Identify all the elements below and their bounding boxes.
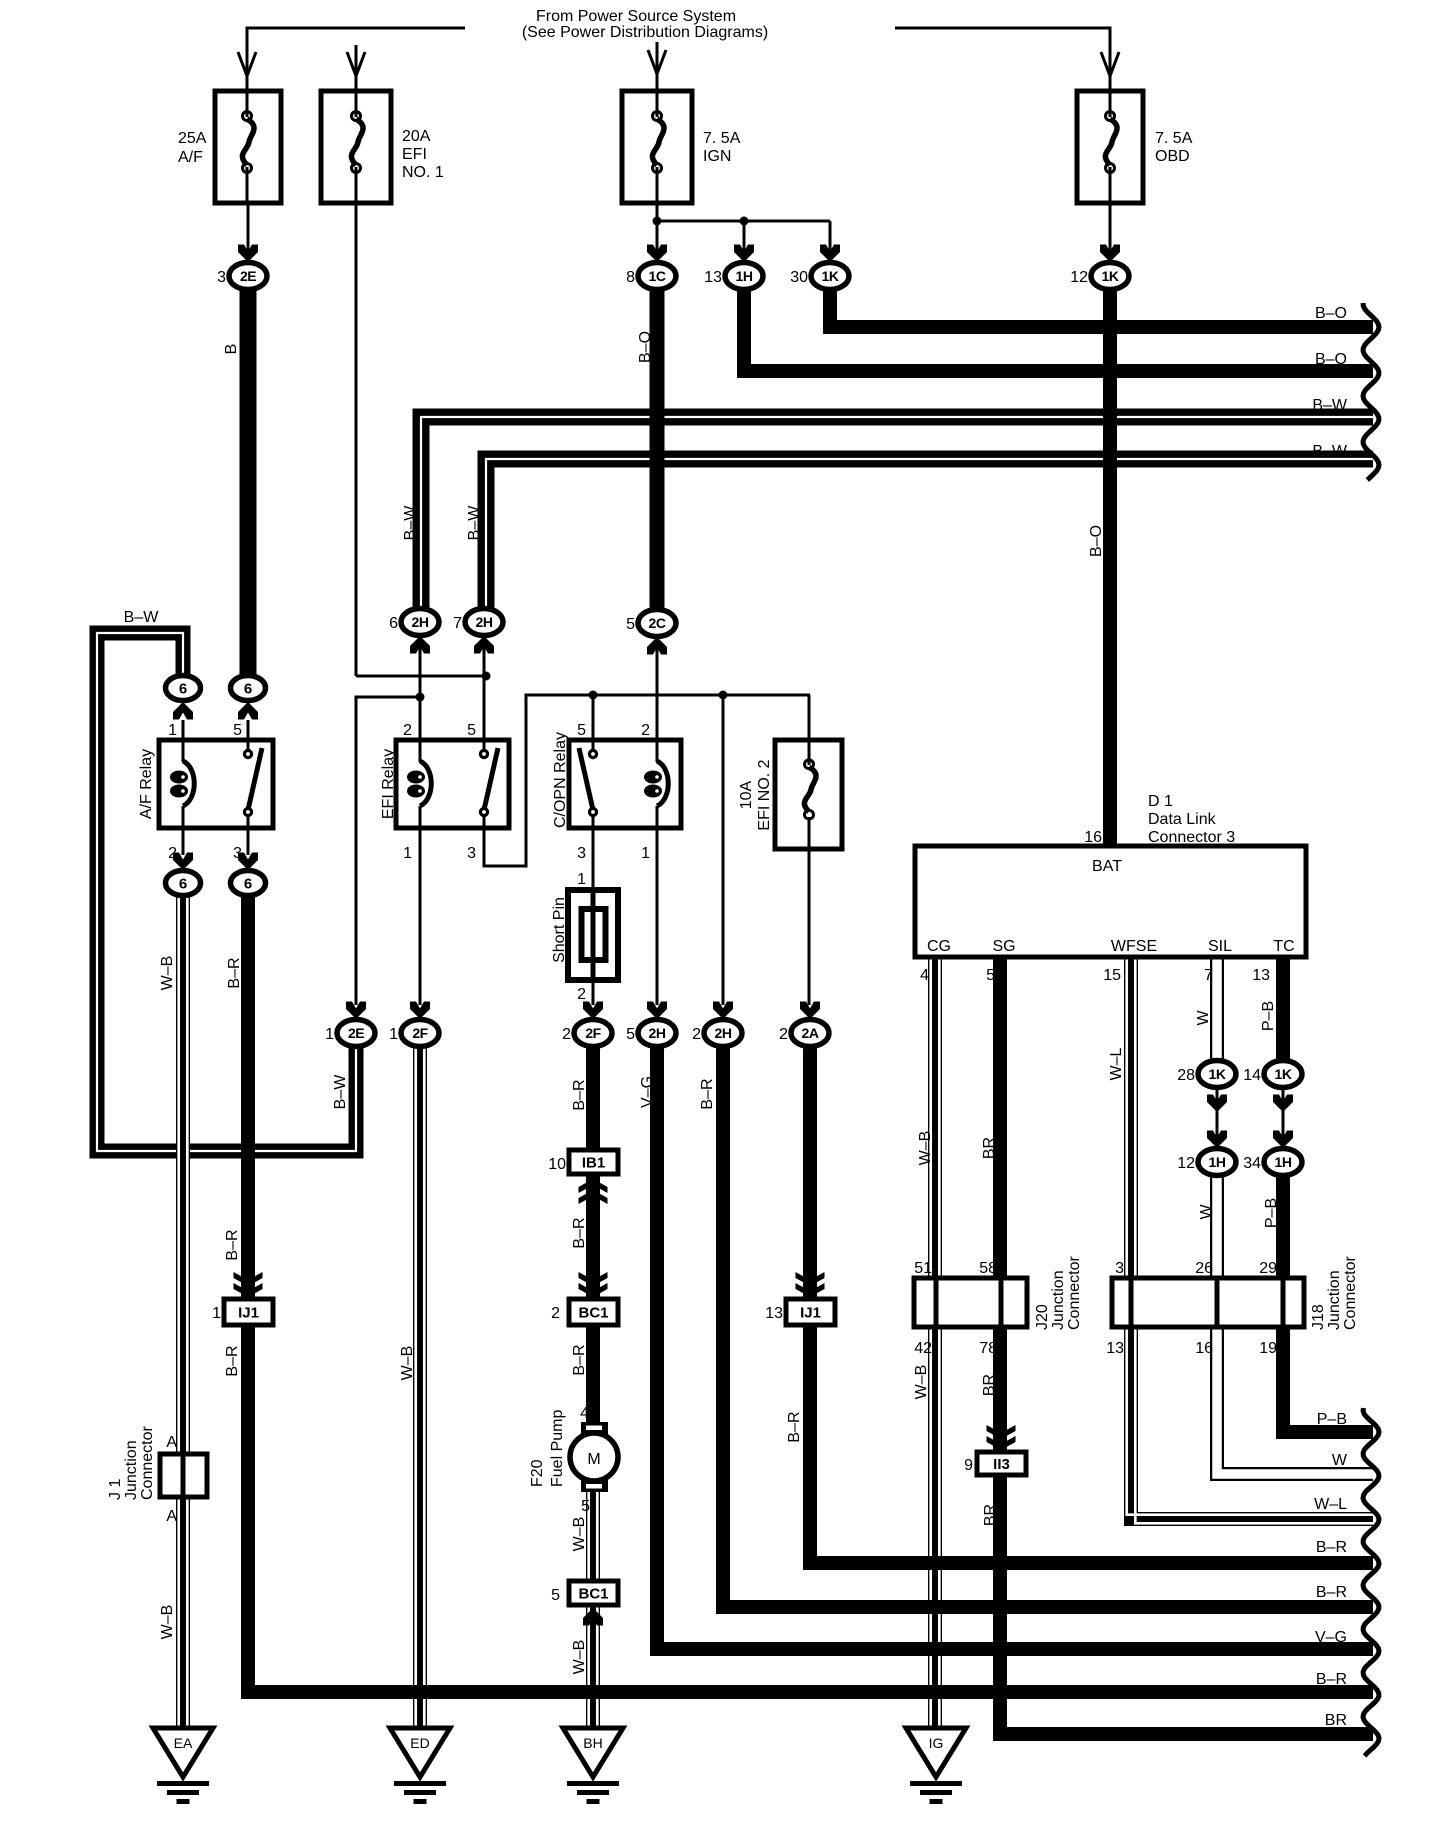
junction connector J1 <box>160 1454 207 1497</box>
svg-text:1K: 1K <box>1209 1066 1226 1082</box>
svg-text:2E: 2E <box>348 1025 364 1041</box>
svg-text:P–B: P–B <box>1317 1411 1347 1428</box>
connector 2 2F <box>574 1020 612 1047</box>
wire to connector 30 1K <box>829 221 832 261</box>
fuse element 7.5A IGN <box>652 112 664 173</box>
svg-text:Connector: Connector <box>1066 1256 1083 1330</box>
svg-text:2H: 2H <box>476 614 493 630</box>
svg-text:2A: 2A <box>802 1025 819 1041</box>
wire P-B from 34 1H via J18 to right exit <box>1283 1176 1373 1432</box>
svg-text:Data Link: Data Link <box>1148 811 1217 828</box>
svg-text:TC: TC <box>1273 938 1294 955</box>
svg-text:BR: BR <box>1325 1712 1347 1729</box>
svg-text:2E: 2E <box>240 268 256 284</box>
svg-text:B–R: B–R <box>224 1345 241 1376</box>
wire W-L from DLC3 WFSE via J18 to right exit <box>1131 957 1373 1519</box>
svg-text:1: 1 <box>212 1305 221 1322</box>
relay EFI box <box>396 740 509 828</box>
wire 20A fuse down to EFI relay pin5 branch <box>355 203 358 676</box>
svg-text:58: 58 <box>979 1260 997 1277</box>
wire stub to 20A EFI NO.1 fuse <box>355 45 358 91</box>
wire A/F relay pin3 down <box>247 812 250 855</box>
svg-text:EFI NO. 2: EFI NO. 2 <box>756 759 773 830</box>
continuation squiggle bottom right <box>1363 1408 1379 1756</box>
svg-text:(See Power Distribution Diagra: (See Power Distribution Diagrams) <box>522 24 768 41</box>
svg-text:16: 16 <box>1195 1340 1213 1357</box>
svg-text:BH: BH <box>583 1735 602 1751</box>
wire to connector 8 1C <box>656 221 659 261</box>
wire P-B from DLC3 TC to 14 1K <box>1276 957 1290 1061</box>
svg-text:2: 2 <box>168 845 177 862</box>
connector 6 A/F relay pin2 <box>166 871 201 896</box>
svg-text:B–R: B–R <box>1316 1671 1347 1688</box>
svg-text:V–G: V–G <box>1315 1629 1347 1646</box>
ground IG <box>906 1728 966 1804</box>
svg-text:B–O: B–O <box>1315 305 1347 322</box>
svg-text:EFI Relay: EFI Relay <box>380 749 397 819</box>
svg-text:3: 3 <box>217 269 226 286</box>
svg-text:B–O: B–O <box>1315 351 1347 368</box>
data link connector 3 box <box>915 846 1306 957</box>
svg-text:W–B: W–B <box>159 1605 176 1640</box>
wire branch to connector 2 2H <box>722 695 725 1005</box>
connector 28 1K <box>1198 1061 1236 1088</box>
wire 2C connector to C/OPN relay pin2 coil <box>656 640 659 762</box>
C/OPN relay coil <box>644 761 668 806</box>
svg-text:W–B: W–B <box>571 1640 588 1675</box>
wire W-B from DLC3 CG to ground IG via J20 <box>928 957 942 1728</box>
svg-text:2: 2 <box>692 1026 701 1043</box>
fuse element 25A A/F <box>242 112 254 173</box>
svg-text:16: 16 <box>1084 829 1102 846</box>
svg-text:6: 6 <box>179 681 187 698</box>
wire B-O from 8 1C to 5 2C <box>650 289 665 611</box>
connector 3 2E <box>229 263 267 290</box>
svg-text:SIL: SIL <box>1208 938 1232 955</box>
svg-text:Junction: Junction <box>1050 1270 1067 1330</box>
wire V-G from 5 2H to right exit <box>657 1045 1373 1649</box>
svg-text:BR: BR <box>981 1374 998 1396</box>
svg-text:Connector: Connector <box>139 1426 156 1500</box>
svg-text:1H: 1H <box>1209 1154 1226 1170</box>
svg-text:13: 13 <box>1106 1340 1124 1357</box>
svg-text:B–W: B–W <box>466 505 483 541</box>
svg-text:4: 4 <box>920 967 929 984</box>
connector 7 2H <box>465 609 503 636</box>
fuel pump terminal 4 <box>581 1422 608 1434</box>
svg-text:W–B: W–B <box>917 1131 934 1166</box>
connector 12 1K <box>1091 263 1129 290</box>
connector IJ1 pin13 <box>786 1299 835 1325</box>
svg-text:B–R: B–R <box>699 1078 716 1109</box>
svg-text:J 1: J 1 <box>107 1479 124 1500</box>
svg-text:7. 5A: 7. 5A <box>703 130 741 147</box>
fuse feed arrowheads <box>238 52 256 76</box>
short pin element <box>582 909 606 960</box>
svg-text:19: 19 <box>1259 1340 1277 1357</box>
svg-text:BAT: BAT <box>1092 858 1122 875</box>
svg-text:1: 1 <box>577 871 586 888</box>
svg-text:EA: EA <box>174 1735 193 1751</box>
wire W-B from BC1 to ground BH <box>586 1605 600 1728</box>
svg-text:26: 26 <box>1195 1260 1213 1277</box>
svg-text:Connector 3: Connector 3 <box>1148 829 1235 846</box>
svg-text:9: 9 <box>964 1457 973 1474</box>
svg-text:28: 28 <box>1177 1067 1195 1084</box>
svg-text:W–B: W–B <box>913 1365 930 1400</box>
fuse 25A A/F box <box>215 91 281 203</box>
junction dot IGN/1C <box>653 217 662 226</box>
svg-text:13: 13 <box>1252 967 1270 984</box>
wire B-R from A/F relay pin3 via IJ1 to right exit <box>248 895 1373 1692</box>
svg-text:B–R: B–R <box>226 957 243 988</box>
svg-text:5: 5 <box>467 722 476 739</box>
A/F relay switch <box>243 749 253 759</box>
svg-text:EFI: EFI <box>402 146 427 163</box>
svg-text:SG: SG <box>992 938 1015 955</box>
svg-text:5: 5 <box>551 1587 560 1604</box>
svg-text:A: A <box>166 1434 177 1451</box>
wire B-W right exit to connector 6 2H <box>421 417 1373 609</box>
connector 5 2C <box>638 610 676 637</box>
svg-text:5: 5 <box>577 722 586 739</box>
svg-text:IB1: IB1 <box>582 1155 605 1172</box>
fuse element 20A EFI NO.1 <box>351 112 363 173</box>
terminal arrows <box>238 245 258 263</box>
fuel pump terminal 5 <box>581 1480 608 1492</box>
connector 1 2E <box>337 1020 375 1047</box>
wire top feed to 25A A/F fuse <box>247 28 465 91</box>
svg-text:3: 3 <box>233 845 242 862</box>
svg-text:IJ1: IJ1 <box>238 1305 259 1322</box>
wire top feed to 7.5A OBD fuse <box>895 28 1110 91</box>
svg-text:3: 3 <box>577 845 586 862</box>
wire B-O from 12 1K to DLC3 BAT pin16 <box>1103 289 1117 846</box>
relay A/F box <box>159 740 273 828</box>
wire B from 3 2E to A/F relay connector <box>240 289 257 676</box>
svg-text:P–B: P–B <box>1260 1001 1277 1031</box>
svg-text:6: 6 <box>389 615 398 632</box>
svg-text:B–R: B–R <box>571 1079 588 1110</box>
svg-text:10A: 10A <box>738 780 755 809</box>
wire A/F relay pin5 to switch <box>247 720 250 754</box>
svg-text:BR: BR <box>982 1504 999 1526</box>
svg-text:30: 30 <box>790 269 808 286</box>
connector 2 2H <box>704 1020 742 1047</box>
svg-text:5: 5 <box>626 616 635 633</box>
connector 5 2H <box>638 1020 676 1047</box>
svg-text:2F: 2F <box>585 1025 601 1041</box>
svg-text:4: 4 <box>580 1405 589 1422</box>
svg-text:W–L: W–L <box>1314 1496 1347 1513</box>
wire W-B fuel pump pin5 to BC1 <box>586 1492 600 1581</box>
svg-text:B–W: B–W <box>1312 397 1348 414</box>
svg-text:B–W: B–W <box>124 609 160 626</box>
svg-text:2C: 2C <box>649 615 666 631</box>
wire B-R from 2 2F to IB1 <box>586 1045 600 1150</box>
fuse element 7.5A OBD <box>1105 112 1117 173</box>
ground BH <box>563 1728 623 1804</box>
connector 6 2H <box>401 609 439 636</box>
wire EFI relay pin1 to connector 1 2F <box>419 806 422 1005</box>
svg-text:1H: 1H <box>736 268 753 284</box>
ground EA <box>153 1728 213 1804</box>
wire 10A EFI NO.2 fuse to connector 2 2A <box>808 849 811 1005</box>
svg-text:ED: ED <box>410 1735 429 1751</box>
junction connector J20 <box>914 1278 1027 1327</box>
wire W from DLC3 SIL to connector 28 1K <box>1210 957 1224 1061</box>
connector 30 1K <box>811 263 849 290</box>
wire EFI relay pin2 coil <box>419 645 422 762</box>
svg-text:1K: 1K <box>822 268 839 284</box>
svg-text:1: 1 <box>641 845 650 862</box>
svg-text:13: 13 <box>765 1305 783 1322</box>
svg-text:B–R: B–R <box>1316 1584 1347 1601</box>
svg-text:2: 2 <box>551 1305 560 1322</box>
svg-text:Fuel Pump: Fuel Pump <box>549 1410 566 1487</box>
connector 34 1H <box>1264 1149 1302 1176</box>
connector 14 1K <box>1264 1061 1302 1088</box>
svg-text:IG: IG <box>929 1735 944 1751</box>
wire short pin pin2 to connector 2 2F <box>592 980 595 1005</box>
wire W-B from connector 1 2F to ground ED <box>413 1045 427 1728</box>
connector 6 A/F relay pin5 <box>231 676 266 701</box>
svg-text:20A: 20A <box>402 128 431 145</box>
connector 6 A/F relay pin1 <box>166 676 201 701</box>
EFI relay switch <box>479 749 489 759</box>
svg-text:34: 34 <box>1243 1155 1261 1172</box>
svg-text:NO. 1: NO. 1 <box>402 164 444 181</box>
svg-text:2H: 2H <box>649 1025 666 1041</box>
svg-text:OBD: OBD <box>1155 148 1190 165</box>
wire stub to 7.5A IGN fuse <box>656 42 659 91</box>
fuel pump motor M <box>570 1433 618 1481</box>
svg-text:12: 12 <box>1177 1155 1195 1172</box>
wire C/OPN relay pin5 <box>592 695 595 754</box>
connector IB1 pin10 <box>569 1150 618 1174</box>
relay C/OPN box <box>569 740 681 828</box>
svg-text:1: 1 <box>325 1026 334 1043</box>
svg-text:2H: 2H <box>412 614 429 630</box>
wire B-R from IB1 to BC1 <box>586 1174 600 1299</box>
junction dot EFI fuse / pin5 <box>482 672 491 681</box>
svg-text:D 1: D 1 <box>1148 793 1173 810</box>
wire BR from DLC3 SG via J20 and II3 to right exit <box>1000 957 1373 1734</box>
svg-text:10: 10 <box>548 1156 566 1173</box>
junction dot branch 2 2H <box>719 691 728 700</box>
svg-text:W–B: W–B <box>399 1346 416 1381</box>
wire through short pin <box>591 891 596 980</box>
svg-text:7: 7 <box>1204 967 1213 984</box>
ground ED <box>390 1728 450 1804</box>
wire C/OPN relay pin3 to short pin <box>592 812 595 891</box>
svg-text:Connector: Connector <box>1342 1256 1359 1330</box>
wire B-R from 2 2H to right exit <box>723 1045 1373 1607</box>
connector IJ1 pin1 <box>224 1299 273 1325</box>
svg-text:A/F: A/F <box>178 149 203 166</box>
junction dot C/OPN pin5 <box>589 691 598 700</box>
svg-text:14: 14 <box>1243 1067 1261 1084</box>
wire B-O from 30 1K to right exit <box>830 289 1373 327</box>
svg-text:B–W: B–W <box>332 1074 349 1110</box>
svg-text:J20: J20 <box>1034 1304 1051 1330</box>
wire EFI relay pin5 to switch <box>483 645 486 754</box>
wire W-B from A/F relay pin2 to ground EA via J1 <box>176 895 190 1728</box>
svg-text:2: 2 <box>779 1026 788 1043</box>
svg-text:B–R: B–R <box>1316 1539 1347 1556</box>
wire branch EFI relay pin2 node to connector 1 2E <box>356 697 420 1005</box>
svg-text:1: 1 <box>389 1026 398 1043</box>
svg-text:B–R: B–R <box>786 1411 803 1442</box>
svg-text:V–G: V–G <box>639 1076 656 1108</box>
svg-text:IJ1: IJ1 <box>800 1305 821 1322</box>
wire W from connector 12 1H via J18 to right exit <box>1217 1176 1373 1474</box>
svg-text:B–R: B–R <box>571 1217 588 1248</box>
wire OBD fuse to connector 12 1K <box>1109 203 1112 261</box>
wire IGN junction horizontal <box>657 220 830 223</box>
svg-text:5: 5 <box>581 1498 590 1515</box>
svg-text:BC1: BC1 <box>578 1305 608 1322</box>
svg-text:From Power Source System: From Power Source System <box>536 8 736 25</box>
svg-text:2: 2 <box>403 722 412 739</box>
svg-text:1H: 1H <box>1275 1154 1292 1170</box>
wire C/OPN relay pin1 to connector 5 2H <box>656 806 659 1005</box>
svg-text:3: 3 <box>467 845 476 862</box>
junction connector J18 <box>1112 1278 1304 1327</box>
connector II3 pin9 <box>977 1452 1026 1475</box>
svg-text:2: 2 <box>562 1026 571 1043</box>
svg-text:15: 15 <box>1103 967 1121 984</box>
svg-text:5: 5 <box>986 967 995 984</box>
wire EFI relay pin3 to C/OPN feed line <box>484 695 810 866</box>
wire B-W loop from connector 1 2E to A/F relay pin1 connector <box>97 633 356 1151</box>
svg-text:Junction: Junction <box>1326 1270 1343 1330</box>
svg-text:6: 6 <box>244 681 252 698</box>
svg-text:W: W <box>1198 1204 1215 1220</box>
connector 12 1H <box>1198 1149 1236 1176</box>
svg-text:13: 13 <box>704 269 722 286</box>
svg-text:7. 5A: 7. 5A <box>1155 130 1193 147</box>
wire to connector 13 1H <box>743 221 746 261</box>
svg-text:1K: 1K <box>1102 268 1119 284</box>
svg-text:51: 51 <box>914 1260 932 1277</box>
svg-text:25A: 25A <box>178 130 207 147</box>
svg-text:2F: 2F <box>412 1025 428 1041</box>
svg-text:42: 42 <box>914 1340 932 1357</box>
fuse 7.5A OBD box <box>1077 91 1143 203</box>
connector 2 2A <box>791 1020 829 1047</box>
svg-text:A: A <box>166 1508 177 1525</box>
svg-text:8: 8 <box>626 269 635 286</box>
svg-text:3: 3 <box>1115 1260 1124 1277</box>
A/F relay coil <box>170 761 194 806</box>
wire B-R from BC1 to fuel pump pin4 <box>586 1325 600 1424</box>
svg-text:6: 6 <box>179 876 187 893</box>
fuse 7.5A IGN box <box>622 91 692 203</box>
wire 25A fuse to connector 3 2E <box>247 203 250 261</box>
svg-text:B–W: B–W <box>1312 443 1348 460</box>
svg-text:12: 12 <box>1070 269 1088 286</box>
svg-text:II3: II3 <box>993 1456 1010 1473</box>
svg-text:P–B: P–B <box>1263 1198 1280 1228</box>
fuse element 10A EFI NO.2 <box>804 760 816 819</box>
svg-text:W: W <box>1332 1452 1348 1469</box>
svg-text:Junction: Junction <box>123 1440 140 1500</box>
svg-text:7: 7 <box>453 615 462 632</box>
svg-text:IGN: IGN <box>703 148 731 165</box>
wire IGN fuse to junction <box>656 203 659 221</box>
wire B-O from 13 1H to right exit <box>744 289 1373 371</box>
svg-text:WFSE: WFSE <box>1111 938 1157 955</box>
junction dot EFI pin2 branch <box>416 693 425 702</box>
wire between 14 1K and 34 1H <box>1282 1090 1285 1146</box>
fuse 10A EFI NO.2 box <box>775 740 842 849</box>
connector 13 1H <box>725 263 763 290</box>
fuse 20A EFI NO.1 box <box>321 91 391 203</box>
svg-text:CG: CG <box>927 938 951 955</box>
svg-text:B–O: B–O <box>1088 525 1105 557</box>
connector BC1 pin5 <box>569 1581 618 1605</box>
svg-text:A/F Relay: A/F Relay <box>138 749 155 819</box>
short pin box <box>568 890 618 980</box>
svg-text:78: 78 <box>979 1340 997 1357</box>
wire feed to 10A EFI NO.2 fuse <box>808 695 811 740</box>
connector BC1 pin2 <box>569 1299 618 1325</box>
svg-text:BR: BR <box>981 1137 998 1159</box>
svg-text:Short Pin: Short Pin <box>551 897 568 963</box>
svg-text:29: 29 <box>1259 1260 1277 1277</box>
wire 20A fuse branch to EFI relay pin5 node <box>356 675 486 678</box>
wire A/F relay pin2 down <box>182 806 185 855</box>
svg-text:B–R: B–R <box>571 1344 588 1375</box>
wire B-R from 2 2A via IJ1 to right exit <box>810 1045 1373 1563</box>
svg-text:M: M <box>587 1451 600 1468</box>
svg-text:1K: 1K <box>1275 1066 1292 1082</box>
svg-text:BC1: BC1 <box>578 1586 608 1603</box>
svg-text:2H: 2H <box>715 1025 732 1041</box>
connector 6 A/F relay pin3 <box>231 871 266 896</box>
svg-text:2: 2 <box>641 722 650 739</box>
junction dot IGN/1H <box>740 217 749 226</box>
svg-text:6: 6 <box>244 876 252 893</box>
wire B-W right exit to connector 7 2H <box>486 459 1373 609</box>
svg-text:F20: F20 <box>529 1459 546 1487</box>
svg-text:W: W <box>1195 1010 1212 1026</box>
svg-text:5: 5 <box>626 1026 635 1043</box>
svg-text:B–W: B–W <box>402 505 419 541</box>
svg-text:1C: 1C <box>649 268 666 284</box>
svg-text:J18: J18 <box>1310 1304 1327 1330</box>
svg-text:1: 1 <box>168 722 177 739</box>
svg-text:B: B <box>223 344 240 355</box>
wire between 28 1K and 12 1H <box>1216 1090 1219 1146</box>
svg-text:W–B: W–B <box>571 1517 588 1552</box>
connector 8 1C <box>638 263 676 290</box>
svg-text:W–B: W–B <box>159 956 176 991</box>
svg-text:B–R: B–R <box>224 1229 241 1260</box>
svg-text:5: 5 <box>233 722 242 739</box>
svg-text:2: 2 <box>577 986 586 1003</box>
svg-text:B–O: B–O <box>637 331 654 363</box>
EFI relay coil <box>407 761 431 806</box>
svg-text:W–L: W–L <box>1108 1047 1125 1080</box>
C/OPN relay switch <box>588 749 598 759</box>
wire A/F relay pin1 coil <box>182 720 185 762</box>
svg-text:1: 1 <box>403 845 412 862</box>
continuation squiggle top right <box>1363 303 1379 480</box>
connector 1 2F <box>401 1020 439 1047</box>
svg-text:C/OPN Relay: C/OPN Relay <box>552 732 569 828</box>
